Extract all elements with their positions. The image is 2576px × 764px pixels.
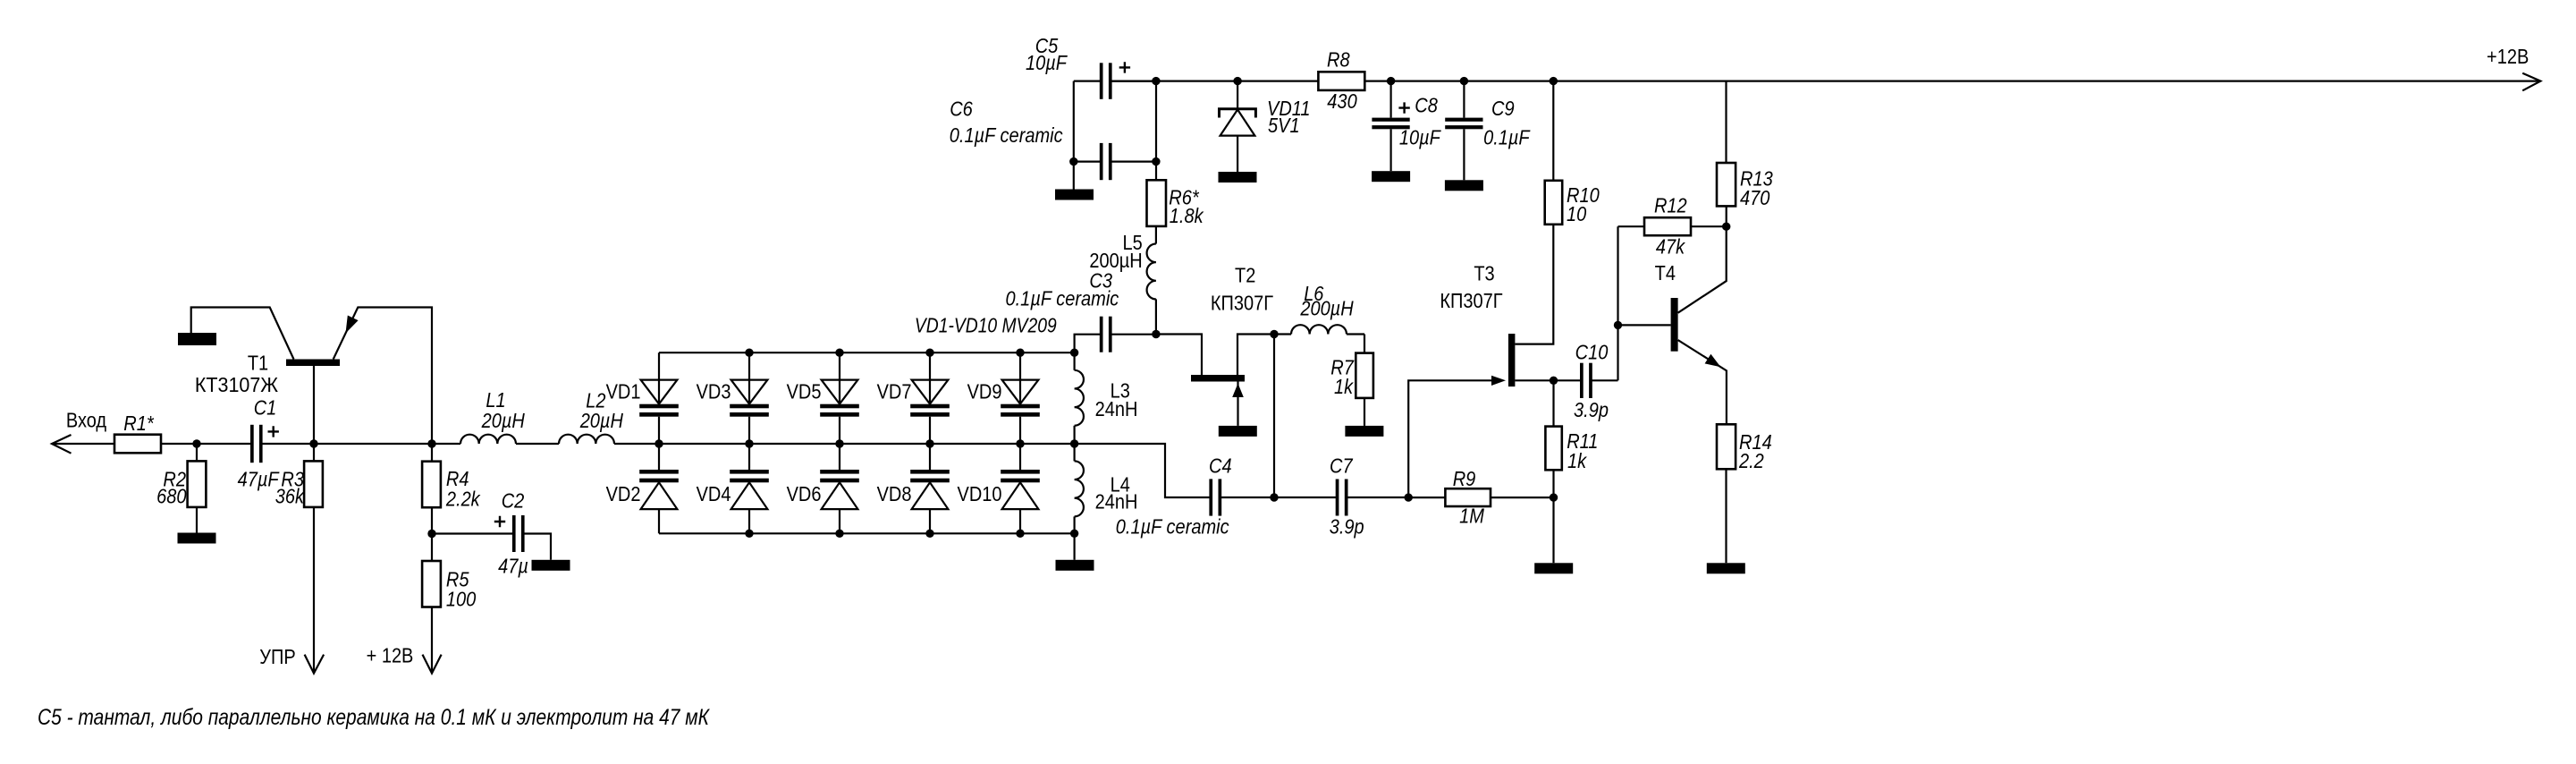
junction dot bottom bus at x=838 [745,530,753,538]
svg-text:КП307Г: КП307Г [1211,292,1274,315]
transistor T3 (FET) [1440,262,1553,387]
wire junction I to R11 [1552,380,1554,426]
svg-text:0.1µF: 0.1µF [1483,126,1531,149]
svg-text:VD6: VD6 [787,482,822,505]
junction dot middle bus at x=838 [745,439,753,447]
resistor R6 [1147,180,1204,227]
wire junction H to ground [1552,497,1554,563]
inductor L6 [1274,282,1364,335]
resistor R5 [422,561,476,611]
svg-text:24nH: 24nH [1095,490,1138,514]
svg-text:2.2: 2.2 [1738,449,1764,472]
wire junction J to T4 base [1618,324,1671,326]
resistor R7 [1330,353,1373,398]
wire C4 to junction F2 [1220,497,1274,498]
wire L2 to varicap array [614,443,659,445]
wire junction G to T3 gate [1408,380,1491,497]
svg-text:10: 10 [1567,202,1586,225]
svg-text:3.9p: 3.9p [1574,398,1609,421]
junction dot D (R4/R5/C2) [427,530,435,538]
wire R1 to junction A [161,443,197,445]
varicap diode VD8 [877,444,950,533]
wire C2 to ground [524,534,551,560]
node +12В supply arrow (bottom) [367,644,442,674]
varicap diode VD6 [787,444,859,533]
capacitor C1 [238,396,281,491]
resistor R1 [114,412,161,453]
junction dot F2 (C4/C7/T2 drain) [1270,493,1278,501]
resistor R9 [1445,467,1491,528]
svg-text:Вход: Вход [66,409,107,432]
svg-text:УПР: УПР [259,645,295,668]
wire C5 left to corner [1074,80,1101,81]
zener diode VD11 [1220,81,1311,172]
varicap diode VD1 [606,352,679,444]
svg-text:КТ3107Ж: КТ3107Ж [195,373,278,396]
svg-text:20µH: 20µH [579,409,623,432]
svg-text:VD1: VD1 [606,380,641,403]
junction dot C6 right [1152,157,1160,166]
junction dot top bus at x=1040 [925,349,933,357]
wire C6 left [1074,161,1101,163]
resistor R14 [1717,424,1772,472]
svg-text:C4: C4 [1209,454,1232,478]
varicap diode VD10 [958,444,1040,533]
svg-text:20µH: 20µH [481,409,525,432]
wire R6 to rail [1155,81,1157,181]
wire top bus riser to C3 [1075,335,1101,353]
junction dot F (T2 drain/L6) [1270,330,1278,338]
svg-text:1.8k: 1.8k [1170,204,1204,227]
junction dot K (R12/R13/T4 collector) [1722,223,1730,231]
svg-text:C7: C7 [1330,454,1354,478]
junction dot bottom bus at x=1040 [925,530,933,538]
svg-text:C8: C8 [1415,94,1438,117]
junction dot H (R9/R11/ground) [1550,493,1558,501]
svg-text:5V1: 5V1 [1268,114,1300,137]
svg-text:VD5: VD5 [787,380,822,403]
svg-text:430: 430 [1327,89,1357,113]
svg-text:VD9: VD9 [967,380,1002,403]
svg-text:10µF: 10µF [1399,126,1442,149]
resistor R3 [275,461,323,507]
inductor L3 [1075,352,1138,444]
svg-text:0.1µF ceramic: 0.1µF ceramic [1006,287,1119,310]
svg-text:C10: C10 [1575,341,1609,364]
wire R2 to ground [196,507,198,533]
svg-text:VD4: VD4 [697,482,731,505]
junction dot middle bus right end [1070,439,1078,447]
junction dot bottom bus right end [1070,530,1078,538]
transistor T2 (FET) [1156,264,1274,426]
capacitor C10 [1574,341,1609,422]
junction dot C (T1 emitter/R4/L1) [427,439,435,447]
wire R11 to junction H [1552,470,1554,497]
svg-text:100: 100 [446,588,477,611]
svg-text:1k: 1k [1567,449,1587,472]
svg-text:47µ: 47µ [498,555,528,578]
capacitor C6 [950,98,1112,181]
inductor L5 [1089,226,1156,335]
ground below C5/C6 [1055,190,1094,200]
svg-text:3.9p: 3.9p [1330,515,1364,539]
svg-text:10µF: 10µF [1026,51,1068,74]
svg-text:R8: R8 [1327,48,1350,72]
junction dot rail at C8 [1387,77,1395,85]
resistor R8 [1318,48,1364,114]
svg-text:+12В: +12В [2487,45,2529,68]
wire rail to R13 [1725,81,1727,163]
junction dot middle bus at x=1141 [1016,439,1024,447]
junction dot top bus at x=838 [745,349,753,357]
ground at T2 source [1219,426,1257,437]
ground below C8 [1372,171,1410,182]
ground below VD11 [1219,172,1257,183]
wire L1 to L2 [516,443,559,445]
junction dot bottom bus at x=939 [835,530,843,538]
resistor R11 [1545,427,1598,472]
resistor R13 [1717,163,1773,209]
wire varicap array top bus [659,352,1075,353]
wire C5/C6 left vertical to ground [1073,81,1075,190]
ground at C2 [532,560,570,571]
junction dot rail at R10 [1550,77,1558,85]
capacitor C2 [494,489,528,578]
svg-text:200µH: 200µH [1299,297,1353,320]
wire junction F2 to C7 [1274,497,1337,498]
wire C5 right to rail dot [1111,80,1156,81]
svg-text:VD8: VD8 [877,482,912,505]
svg-text:680: 680 [156,485,187,508]
wire junction C to L1 [432,443,460,445]
ground below R14 [1707,563,1745,573]
svg-text:C6: C6 [950,98,973,121]
svg-text:24nH: 24nH [1095,397,1138,420]
svg-text:VD3: VD3 [697,380,731,403]
wire R3 to УПР arrow [313,507,315,673]
wire R9 to junction H [1491,497,1554,498]
resistor R2 [156,461,206,507]
resistor R10 [1545,181,1600,225]
inductor L2 [559,389,623,445]
varicap diode VD3 [697,352,769,444]
svg-text:+ 12В: + 12В [367,644,414,667]
svg-text:С5 - тантал, либо параллельно: С5 - тантал, либо параллельно керамика н… [38,705,710,730]
junction dot middle bus at x=939 [835,439,843,447]
node +12В rail arrow [2487,45,2540,90]
wire junction I to C10 [1554,379,1582,381]
junction dot G (C7/R9/T3 gate) [1405,493,1413,501]
svg-text:T1: T1 [248,352,268,375]
junction dot top bus at x=939 [835,349,843,357]
wire junction A to C1 [197,443,251,445]
wire R10 to T3 drain [1515,225,1553,344]
svg-text:R1*: R1* [123,412,154,435]
wire varicap array bottom bus [659,532,1075,534]
varicap diode VD7 [877,352,950,444]
svg-text:36k: 36k [275,485,305,508]
svg-text:КП307Г: КП307Г [1440,289,1503,312]
wire R4 to junction D [431,507,433,533]
inductor L1 [460,388,525,444]
capacitor C4 [1116,454,1232,539]
wire rail to R10 [1552,81,1554,181]
svg-text:C9: C9 [1491,97,1515,120]
junction dot I (T3 source/R11/C10) [1550,377,1558,385]
wire junction B to R4 junction [314,443,432,445]
svg-text:VD1-VD10 MV209: VD1-VD10 MV209 [915,314,1057,337]
junction dot rail at R6 [1152,77,1160,85]
svg-text:T3: T3 [1474,262,1494,285]
svg-text:47µF: 47µF [238,468,281,491]
wire R12 to junction K [1691,225,1727,227]
svg-text:VD7: VD7 [877,380,912,403]
capacitor C7 [1330,454,1364,539]
wire junction A to R2 [196,444,198,461]
wire T4 base riser (R12 corner down) [1617,226,1618,380]
wire C10 to T4 base riser [1592,379,1618,381]
svg-text:200µH: 200µH [1089,249,1142,272]
junction dot J (T4 base/C10/R12) [1614,321,1622,329]
svg-text:1M: 1M [1459,505,1485,528]
junction dot rail at VD11 [1233,77,1241,85]
svg-text:470: 470 [1740,186,1770,209]
capacitor C3 [1006,269,1119,352]
junction dot C6 left [1069,157,1077,166]
node Вход input wire with left arrow [52,409,114,454]
wire C3 to junction E [1111,334,1156,335]
transistor T1 [191,308,432,445]
wire junction G to R9 [1408,497,1445,498]
svg-text:0.1µF ceramic: 0.1µF ceramic [950,123,1063,147]
capacitor C5 [1026,34,1130,99]
capacitor C9 [1445,81,1531,181]
junction dot A (R1/R2/C1) [192,439,200,447]
svg-text:T4: T4 [1655,261,1676,284]
wire C6 right [1111,161,1156,163]
wire junction F down to C4/C7 line [1273,335,1275,498]
wire junction D to C2 [432,532,513,534]
junction dot top bus right end [1070,349,1078,357]
varicap diode VD5 [787,352,859,444]
wire varicap array middle bus [659,444,1210,497]
wire R13 to T4 collector [1678,206,1727,312]
ground at T1 collector [178,333,216,345]
junction dot bottom bus at x=1141 [1016,530,1024,538]
node УПР output arrow [259,645,324,674]
wire R14 to ground [1725,469,1727,563]
varicap diode VD9 [967,352,1040,444]
junction dot B (C1/R3/T1 base) [309,439,317,447]
inductor L4 [1075,444,1138,533]
junction dot middle bus at x=737 [655,439,663,447]
wire R7 to ground [1364,398,1365,426]
ground below R2 [178,533,216,544]
wire R5 to +12V arrow [431,607,433,673]
wire C7 to junction G [1347,497,1409,498]
svg-text:T2: T2 [1235,264,1255,287]
ground below varicap array [1056,560,1094,571]
ground below R7 [1345,426,1383,437]
junction dot E (C3/L5/T2 gate) [1152,330,1160,338]
transistor T4 [1655,261,1727,424]
junction dot top bus at x=1141 [1016,349,1024,357]
svg-text:1k: 1k [1334,375,1354,398]
wire junction B to R3 [313,444,315,461]
junction dot rail at C9 [1460,77,1468,85]
svg-text:VD10: VD10 [958,482,1002,505]
svg-text:C1: C1 [254,396,277,420]
wire L6 to R7 [1364,335,1365,353]
ground below R11 [1534,563,1573,573]
svg-text:C2: C2 [502,489,525,513]
svg-text:47k: 47k [1656,235,1685,259]
svg-text:R12: R12 [1654,194,1687,217]
varicap diode VD4 [697,444,769,533]
svg-text:0.1µF ceramic: 0.1µF ceramic [1116,515,1229,539]
ground below C9 [1445,180,1483,191]
capacitor C8 [1372,81,1441,172]
wire T1 base [313,366,315,444]
wire junction C to R4 [431,444,433,462]
wire junction D to R5 [431,534,433,562]
resistor R12 [1644,194,1691,259]
varicap diode VD2 [606,444,679,533]
svg-text:R9: R9 [1453,467,1476,490]
svg-text:VD2: VD2 [606,482,641,505]
wire riser to R12 [1618,225,1645,227]
wire bottom bus to ground [1073,533,1075,560]
svg-text:2.2k: 2.2k [445,488,481,511]
wire C1 to junction B [262,443,314,445]
resistor R4 [422,462,481,511]
wire +12V power rail [1111,80,2541,81]
junction dot middle bus at x=1040 [925,439,933,447]
